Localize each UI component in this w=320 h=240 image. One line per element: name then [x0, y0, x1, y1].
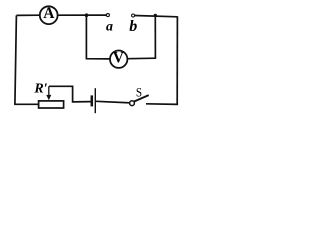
- wire voltmeter branch right vertical: [154, 15, 156, 58]
- wire voltmeter to right branch: [128, 57, 157, 60]
- wire top-left horizontal: [16, 14, 39, 16]
- wire rheostat wiper to battery: [49, 86, 91, 102]
- svg-text:b: b: [129, 18, 137, 35]
- wire left side vertical: [15, 15, 17, 105]
- svg-text:A: A: [43, 5, 55, 22]
- terminal b: [132, 14, 135, 17]
- svg-text:S: S: [136, 85, 142, 99]
- wire bottom-right (switch fixed side): [146, 103, 178, 106]
- junction dot (voltmeter tap, left): [85, 13, 89, 17]
- svg-text:R′: R′: [33, 82, 47, 97]
- junction dot (voltmeter tap, right): [154, 14, 157, 17]
- wire terminal b to top-right corner: [135, 16, 178, 17]
- wire ammeter to terminal a: [58, 14, 106, 16]
- svg-text:a: a: [106, 20, 113, 35]
- wire bottom-left to rheostat: [14, 103, 38, 105]
- voltmeter V: [110, 49, 127, 68]
- svg-text:V: V: [113, 49, 125, 66]
- wire right side vertical: [176, 16, 178, 104]
- terminal a: [106, 14, 109, 17]
- ammeter A: [40, 5, 58, 24]
- wire battery to switch: [96, 101, 130, 103]
- rheostat R': [39, 86, 64, 108]
- wire voltmeter branch left (down from junction): [86, 15, 109, 59]
- switch S: [130, 95, 149, 106]
- battery cell: [92, 88, 96, 113]
